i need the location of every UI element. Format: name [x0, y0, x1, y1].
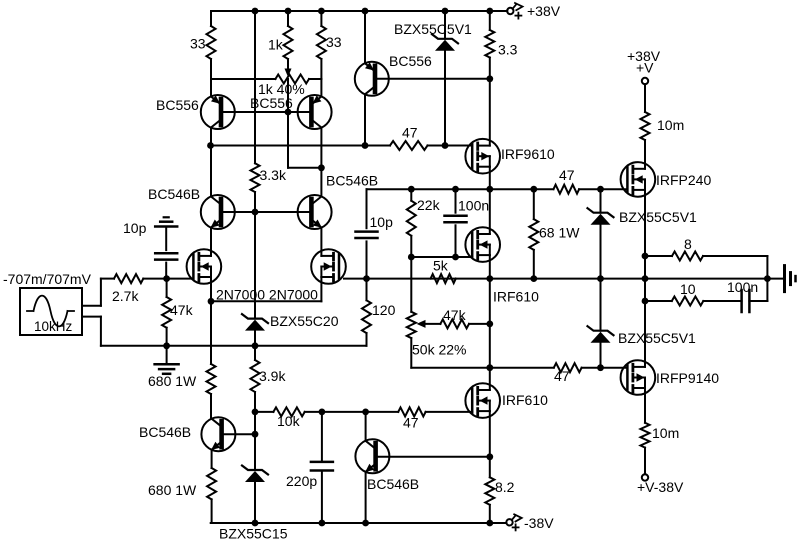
wire IRF610-upper gate row — [411, 256, 472, 258]
mosfet IRF610 (upper, M4) — [465, 227, 500, 262]
label 22k — [417, 197, 441, 213]
svg-text:IRFP240: IRFP240 — [656, 172, 711, 188]
svg-text:IRF610: IRF610 — [502, 392, 548, 408]
svg-text:+V-38V: +V-38V — [637, 479, 684, 495]
transistor BC556 (top middle, Q3) — [355, 62, 389, 96]
label 10kHz — [34, 319, 73, 334]
svg-text:680 1W: 680 1W — [148, 373, 197, 389]
node fbrow/zener — [597, 275, 604, 282]
resistor 68 1W — [529, 189, 538, 278]
svg-text:10p: 10p — [123, 220, 147, 236]
svg-text:100n: 100n — [458, 198, 489, 214]
signal source V1 box — [20, 288, 82, 335]
transistor BC546B (upper right, Q5) — [298, 195, 332, 229]
mosfet IRFP9140 (M7) — [621, 360, 656, 395]
label BC546B (upper right) — [326, 173, 378, 189]
label 33 (right) — [326, 34, 342, 50]
mosfet 2N7000 (left, M1) — [187, 249, 222, 284]
node brail/BC546B-br — [362, 520, 369, 527]
label 47k (left) — [170, 302, 194, 318]
label 3.3 — [498, 42, 518, 58]
capacitor 100n (output) — [742, 290, 768, 312]
label IRFP9140 — [656, 370, 719, 386]
svg-text:BZX55C5V1: BZX55C5V1 — [394, 21, 472, 37]
node input gate junction — [163, 275, 170, 282]
resistor 10m (upper) — [641, 84, 650, 169]
node BC556-mid base / 3.3 bottom — [486, 75, 493, 82]
label 10p (right) — [370, 214, 394, 230]
transistor BC546B (upper left, Q4) — [201, 195, 235, 229]
wire BC556-mid base — [375, 78, 490, 80]
wire input ground row — [101, 345, 367, 347]
label BZX55C5V1 (top) — [394, 21, 472, 37]
label 10 (output) — [680, 281, 696, 297]
wire BC556-left emitter — [210, 79, 212, 96]
transistor BC546B (bottom right, Q7) — [355, 439, 389, 473]
node gnd row / 47k — [163, 342, 170, 349]
node trunk/10 — [642, 298, 649, 305]
svg-text:3.9k: 3.9k — [259, 368, 286, 384]
label BZX55C15 — [219, 526, 288, 542]
wire trunk mid — [644, 256, 646, 301]
label 47 (IRFP9140 gate) — [554, 368, 570, 384]
wire bottom rail — [211, 522, 507, 524]
node rail/1k — [285, 8, 292, 15]
label BC546B (upper left) — [148, 186, 200, 202]
svg-text:3.3: 3.3 — [498, 42, 518, 58]
wire source plus stub — [82, 279, 101, 306]
svg-text:47: 47 — [554, 368, 570, 384]
svg-text:BC546B: BC546B — [148, 186, 200, 202]
node gate row/100n — [452, 254, 459, 261]
wire BC556 bases link — [221, 111, 311, 113]
node mirror collector junction — [318, 164, 325, 171]
label +V-38V (bottom right) — [637, 479, 684, 495]
svg-text:47: 47 — [402, 125, 418, 141]
wire BC556-mid collector — [364, 95, 366, 146]
resistor 5k — [431, 274, 456, 283]
wire BC556-left collector — [210, 128, 212, 146]
node lower gate row/zener — [597, 364, 604, 371]
trimmer 50k 22% — [407, 312, 426, 368]
wire BC546B-br collector — [365, 412, 367, 441]
label 5k — [433, 258, 449, 274]
transistor BC556 (left, Q1) — [201, 95, 235, 129]
label BC546B (bottom left) — [139, 424, 191, 440]
label 2N7000 2N7000 — [216, 287, 318, 303]
label 68 1W — [539, 225, 580, 241]
resistor 10k — [273, 407, 322, 416]
resistor 120 — [362, 279, 371, 346]
resistor 3.9k — [251, 346, 260, 412]
label 3.9k — [259, 368, 286, 384]
label 47 (VAS row) — [402, 125, 418, 141]
label IRF610 (upper) — [493, 289, 539, 305]
trimmer 1k 40% body — [211, 69, 321, 84]
node source/8.2 junction — [486, 453, 493, 460]
svg-text:BZX55C5V1: BZX55C5V1 — [619, 209, 697, 225]
label 10p (left) — [123, 220, 147, 236]
node rail189/68 — [530, 186, 537, 193]
node 47k/source col — [486, 321, 493, 328]
label BZX55C5V1 (upper right) — [619, 209, 697, 225]
node gate row/22k — [408, 254, 415, 261]
wire collector rail y146 — [211, 145, 391, 147]
svg-text:5k: 5k — [433, 258, 449, 274]
svg-text:10m: 10m — [652, 425, 679, 441]
svg-text:8: 8 — [684, 236, 692, 252]
node rail/zener — [442, 8, 449, 15]
svg-text:BC556: BC556 — [389, 53, 432, 69]
label -38V (bottom) — [524, 515, 554, 531]
node gnd row / zener20 — [252, 342, 259, 349]
wire 2N7000-right source — [211, 277, 321, 301]
svg-text:IRF9610: IRF9610 — [501, 146, 555, 162]
capacitor 100n (mid) — [445, 189, 467, 257]
mosfet IRF610 (lower, M5) — [465, 383, 500, 418]
wire BC556-right emitter — [320, 79, 322, 96]
label 10k — [277, 413, 301, 429]
mosfet IRF9610 (M3) — [465, 139, 500, 174]
svg-text:BC556: BC556 — [156, 97, 199, 113]
node rail189/IRF9610 — [486, 186, 493, 193]
wire BC546B-ul collector — [210, 146, 212, 197]
label 47 (lower left) — [403, 415, 419, 431]
wire gate rail y189 — [367, 188, 554, 190]
connector -V (bottom right) — [642, 474, 648, 480]
node rail/BC556-mid — [362, 8, 369, 15]
label 120 — [372, 302, 396, 318]
wire input node to gate — [167, 278, 194, 280]
svg-text:1k: 1k — [268, 37, 284, 53]
resistor 10 (output) — [645, 297, 742, 306]
label 680 1W (upper) — [148, 373, 197, 389]
node BC556 bases / wiper — [285, 109, 292, 116]
wire BC546B-ul emitter — [210, 228, 212, 256]
ground (input) — [155, 346, 179, 374]
label 100n (mid) — [458, 198, 489, 214]
node trunk/8 — [642, 253, 649, 260]
mosfet 2N7000 (right, M2) — [311, 249, 346, 284]
wire 10k row — [255, 411, 273, 413]
svg-text:-707m/707mV: -707m/707mV — [3, 271, 92, 287]
wire BC546B-ur emitter — [320, 228, 322, 256]
svg-text:10: 10 — [680, 281, 696, 297]
node fbrow/68 — [530, 275, 537, 282]
node tail junction — [208, 298, 215, 305]
capacitor 10p (left) — [155, 227, 177, 279]
label 47 (IRFP240 gate) — [559, 167, 575, 183]
label IRF610 (lower) — [502, 392, 548, 408]
label 47k (mid) — [443, 307, 467, 323]
svg-text:50k 22%: 50k 22% — [412, 342, 466, 358]
svg-text:BC546B: BC546B — [139, 424, 191, 440]
zener BZX55C5V1 (upper right, D3) — [588, 189, 614, 278]
svg-text:680 1W: 680 1W — [148, 482, 197, 498]
svg-text:BZX55C20: BZX55C20 — [270, 313, 339, 329]
label 680 1W (lower) — [148, 482, 197, 498]
resistor 3.3k — [251, 11, 260, 212]
node rail/3.3 — [486, 8, 493, 15]
connector +38V (top) — [507, 3, 522, 19]
node rail/255 — [252, 8, 259, 15]
node 10krow/220p — [319, 409, 326, 416]
label BC556 (left) — [156, 97, 199, 113]
node fbrow/output — [642, 275, 649, 282]
svg-text:10k: 10k — [277, 413, 301, 429]
label 3.3k — [260, 167, 287, 183]
wire 47 to IRFP9140 gate — [601, 367, 628, 369]
label 1k — [268, 37, 284, 53]
resistor 10m (lower) — [641, 388, 650, 474]
label 220p — [286, 473, 317, 489]
node rail146 zener — [442, 142, 449, 149]
svg-text:2.7k: 2.7k — [112, 288, 139, 304]
svg-text:220p: 220p — [286, 473, 317, 489]
wire 47 to IRF610-lower gate — [426, 411, 473, 413]
wire zener col link — [254, 412, 256, 434]
resistor 680 1W (upper) — [207, 301, 216, 418]
connector +V (top right) — [642, 78, 648, 84]
node BC546B-bl base/zener col — [252, 431, 259, 438]
resistor 47 (IRFP240 gate) — [554, 185, 601, 194]
wire IRF9610 source — [489, 167, 491, 190]
svg-text:33: 33 — [190, 36, 206, 52]
label IRFP240 — [656, 172, 711, 188]
svg-text:IRF610: IRF610 — [493, 289, 539, 305]
resistor 47 (IRFP9140 gate) — [554, 363, 601, 372]
label -707m/707mV — [3, 271, 92, 287]
svg-text:IRFP9140: IRFP9140 — [656, 370, 719, 386]
svg-text:BC556: BC556 — [250, 95, 293, 111]
svg-text:47: 47 — [559, 167, 575, 183]
label BC556 (right) — [250, 95, 293, 111]
wire trunk to IRFP9140 — [644, 301, 646, 367]
label 2.7k — [112, 288, 139, 304]
node BC546B bases / 3.3k — [252, 209, 259, 216]
ground (output, right) — [767, 266, 795, 292]
svg-text:BC546B: BC546B — [326, 173, 378, 189]
resistor 47k (left) — [162, 279, 171, 346]
svg-text:47k: 47k — [443, 307, 467, 323]
wire 8 loop down — [766, 256, 768, 279]
wire 10k row mid — [322, 411, 398, 413]
svg-text:22k: 22k — [417, 197, 441, 213]
capacitor 220p — [311, 412, 333, 523]
resistor 680 1W (lower) — [207, 468, 216, 523]
wire output row — [645, 278, 767, 280]
node rail/33R — [318, 8, 325, 15]
resistor 1k — [284, 11, 293, 69]
label +V (right) — [636, 60, 654, 76]
svg-text:2N7000 2N7000: 2N7000 2N7000 — [216, 287, 318, 303]
label BZX55C20 — [270, 313, 339, 329]
resistor 47 (VAS row) — [390, 141, 445, 150]
wire BC546B-ur collector — [320, 168, 322, 196]
node lower gate row/col — [486, 364, 493, 371]
wire 47 to IRF9610 gate — [445, 145, 472, 147]
svg-text:10kHz: 10kHz — [34, 319, 73, 334]
mosfet IRFP240 (M6) — [621, 162, 656, 197]
wire BC546B bases link — [221, 211, 311, 213]
resistor 8 (output) — [645, 252, 767, 261]
wire 2N7000-left source — [210, 277, 212, 301]
wire IRF610-lower source — [489, 411, 491, 457]
svg-text:47k: 47k — [170, 302, 194, 318]
wire IRF610-lower drain — [489, 368, 491, 390]
zener BZX55C5V1 (top, D1) — [432, 11, 458, 146]
label 33 (left) — [190, 36, 206, 52]
wire 22k-50k link — [410, 257, 412, 312]
node rail189/22k — [408, 186, 415, 193]
svg-text:+38V: +38V — [527, 3, 561, 19]
zener BZX55C15 (D5) — [242, 434, 268, 523]
node fbrow/IRF610u — [486, 275, 493, 282]
svg-text:68 1W: 68 1W — [539, 225, 580, 241]
wire BC546B-br emitter — [365, 472, 367, 523]
node rail189/zener — [597, 186, 604, 193]
wire 100n loop up — [766, 279, 768, 301]
wire +38V top rail — [211, 10, 507, 12]
wire BC556-right collector — [320, 128, 322, 168]
node rail189/100n — [452, 186, 459, 193]
node brail/8.2 — [486, 520, 493, 527]
label BC546B (bottom right) — [367, 476, 419, 492]
wire BC556-mid emitter — [364, 11, 366, 63]
label 10m (lower) — [652, 425, 679, 441]
svg-text:120: 120 — [372, 302, 396, 318]
node rail146 BC556-mid collector — [362, 142, 369, 149]
node output/ground stub — [764, 275, 771, 282]
wire BC546B-bl emitter — [211, 450, 213, 468]
svg-text:47: 47 — [403, 415, 419, 431]
label IRF9610 — [501, 146, 555, 162]
svg-text:8.2: 8.2 — [495, 479, 515, 495]
wire IRFP240 source — [644, 190, 646, 256]
resistor 3.3 — [485, 11, 494, 79]
label BZX55C5V1 (lower right) — [618, 330, 696, 346]
capacitor 10p (right) — [356, 189, 378, 278]
label 1k 40% — [258, 81, 305, 97]
wire IRF9610 drain — [489, 79, 491, 146]
node rail146 left — [207, 142, 214, 149]
node fb node — [363, 275, 370, 282]
svg-text:10m: 10m — [657, 117, 684, 133]
transistor BC556 (right, Q2) — [298, 95, 332, 129]
resistor 47k (mid) — [426, 319, 490, 328]
wire BC546B-bl base — [222, 433, 255, 435]
label +38V (right) — [627, 48, 661, 64]
wire IRF610-upper source — [489, 255, 491, 279]
svg-text:100n: 100n — [727, 279, 758, 295]
wire 2N7000-right gate — [344, 278, 367, 280]
label 100n (output) — [727, 279, 758, 295]
resistor 22k — [407, 189, 416, 257]
wire feedback row — [367, 278, 646, 280]
label 10m (upper) — [657, 117, 684, 133]
node brail/220p — [319, 520, 326, 527]
svg-text:3.3k: 3.3k — [260, 167, 287, 183]
zener BZX55C5V1 (lower right, D4) — [588, 279, 614, 368]
svg-text:+V: +V — [636, 60, 654, 76]
resistor 8.2 — [485, 457, 494, 523]
wire source minus stub — [82, 317, 101, 346]
label 8.2 — [495, 479, 515, 495]
svg-text:10p: 10p — [370, 214, 394, 230]
svg-text:BZX55C5V1: BZX55C5V1 — [618, 330, 696, 346]
wire 47 to IRFP240 gate — [601, 188, 628, 190]
wire BC546B-br base row — [376, 456, 490, 458]
ground (flipped, above 10p) — [155, 217, 177, 226]
wire trimmer wiper to base line — [287, 79, 289, 112]
wire lower gate row — [411, 367, 554, 369]
svg-text:-38V: -38V — [524, 515, 554, 531]
resistor 2.7k — [101, 274, 167, 283]
resistor 33 (right) — [317, 11, 326, 79]
zener BZX55C20 (D2) — [242, 212, 268, 346]
svg-text:BC546B: BC546B — [367, 476, 419, 492]
label +38V (top) — [527, 3, 561, 19]
transistor BC546B (bottom left, Q6) — [201, 417, 235, 451]
resistor 33 (left) — [207, 11, 216, 79]
node 10krow/left — [252, 409, 259, 416]
label BC556 (middle) — [389, 53, 432, 69]
svg-text:33: 33 — [326, 34, 342, 50]
wire IRF610-upper drain — [489, 189, 491, 234]
node brail/zener15 — [252, 520, 259, 527]
svg-text:BZX55C15: BZX55C15 — [219, 526, 288, 542]
label 50k 22% — [412, 342, 466, 358]
connector -38V (bottom) — [506, 514, 521, 530]
wire source column mid — [489, 279, 491, 368]
wire bases to mirror collector (L path) — [288, 112, 321, 168]
label 8 (output) — [684, 236, 692, 252]
node 10krow/collector — [362, 409, 369, 416]
resistor 47 (lower left) — [398, 407, 425, 416]
signal source sine wave — [27, 296, 74, 327]
